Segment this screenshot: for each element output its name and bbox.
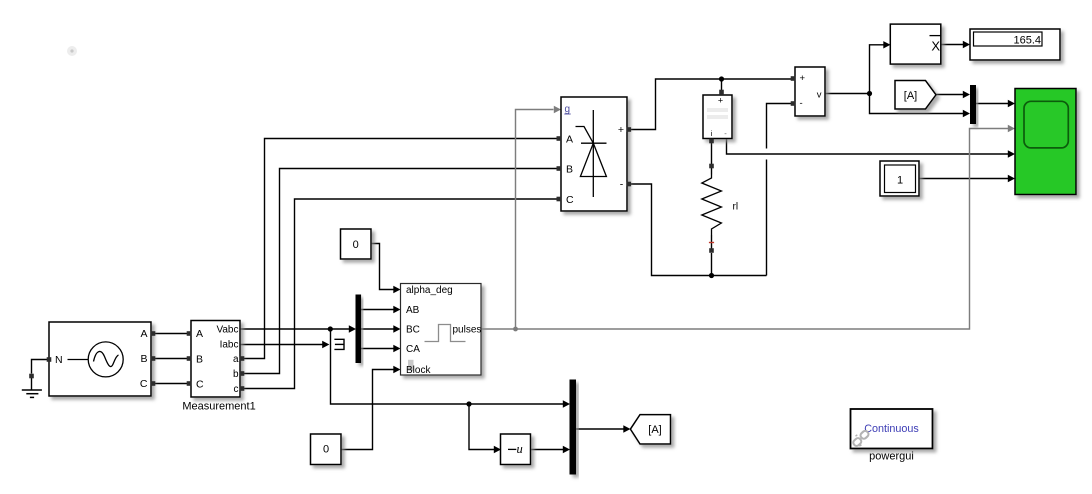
port square bridge plus: [627, 127, 632, 132]
series RLC branch rl: [702, 175, 738, 243]
svg-text:g: g: [565, 104, 571, 115]
port square meas B: [187, 356, 192, 361]
svg-text:powergui: powergui: [869, 451, 914, 463]
svg-text:b: b: [233, 369, 239, 380]
pulse generator block: [401, 284, 482, 377]
port square rl top: [709, 164, 714, 169]
arrow into scope mux in2: [963, 110, 970, 117]
junction vmeas out: [867, 91, 872, 96]
port square vmeas plus: [791, 76, 796, 81]
svg-text:+: +: [800, 73, 806, 84]
svg-text:a: a: [233, 354, 239, 365]
port square source C: [151, 381, 156, 386]
wire branch down to negate: [469, 404, 494, 450]
thyristor bridge block: [561, 97, 627, 211]
svg-text:A: A: [566, 134, 573, 146]
svg-text:B: B: [196, 353, 203, 365]
svg-text:N: N: [55, 354, 63, 366]
arrow into demux: [349, 325, 356, 332]
svg-text:AB: AB: [406, 305, 420, 316]
arrow into mux1 in1: [563, 400, 570, 407]
svg-text:0: 0: [323, 444, 329, 456]
arrow into scope mux in1: [963, 91, 970, 98]
wire constant0 top to alpha_deg: [371, 244, 394, 290]
wire mean to display: [941, 44, 964, 46]
svg-text:-: -: [620, 178, 624, 190]
negate unary minus block: [501, 434, 531, 465]
wire Iabc to terminator: [240, 344, 323, 346]
wire from tag A to scope mux in1: [936, 94, 964, 96]
svg-text:alpha_deg: alpha_deg: [406, 285, 453, 296]
port square rl bottom: [709, 248, 714, 253]
arrow into mux1 in2: [563, 446, 570, 453]
port square bridge B: [557, 166, 562, 171]
arrow into negate: [494, 446, 501, 453]
voltage measurement block: [795, 67, 825, 116]
port square source N: [47, 357, 52, 362]
goto tag A: [630, 415, 670, 444]
port square meas b: [240, 371, 245, 376]
arrow into BC: [393, 325, 400, 332]
svg-text:C: C: [566, 194, 574, 206]
port square source A: [151, 331, 156, 336]
svg-text:1: 1: [897, 174, 903, 186]
mux1 bottom: [570, 380, 577, 475]
port square vmeas minus: [791, 101, 796, 106]
wire bridge minus down to bottom bus: [627, 184, 767, 276]
svg-text:u: u: [517, 442, 523, 456]
arrow into AB: [393, 306, 400, 313]
wire N to ground: [32, 360, 49, 374]
svg-text:[A]: [A]: [904, 90, 917, 102]
arrow into CA: [393, 345, 400, 352]
arrow into terminator: [322, 341, 329, 348]
arrow into alpha_deg: [393, 286, 400, 293]
svg-text:+: +: [718, 96, 723, 106]
wire rl to bottom bus: [711, 253, 713, 276]
wire current meas to rl branch: [711, 143, 713, 165]
junction load bottom: [709, 273, 714, 278]
svg-text:-: -: [800, 98, 803, 109]
wire demux out3 to CA: [361, 348, 395, 350]
arrow into scope in3: [1008, 150, 1015, 157]
three-phase source block: [49, 322, 151, 396]
arrow into scope in4: [1008, 175, 1015, 182]
svg-text:Continuous: Continuous: [864, 423, 919, 435]
constant 0 bottom: [311, 434, 342, 465]
wire negate to mux1 in2: [531, 449, 564, 451]
wire junction down to current measurement: [721, 79, 723, 90]
from tag A: [895, 81, 936, 110]
ground symbol: [22, 390, 42, 397]
wire current i out to scope in3: [727, 139, 1010, 154]
port square imeas top: [719, 90, 724, 95]
svg-text:C: C: [140, 378, 148, 390]
pulse wave icon: [425, 325, 466, 342]
mean block: [890, 24, 941, 64]
current measurement block: [703, 95, 732, 139]
junction Vabc: [328, 326, 333, 331]
wire pulses branch up to bridge g (gray): [516, 110, 554, 330]
wire vmeas v out to junction: [825, 93, 870, 95]
arrow into scope in1: [1008, 100, 1015, 107]
faint smudge dot top-left: [67, 46, 77, 56]
wire measurement a to bridge A: [240, 139, 559, 359]
port square bridge C: [557, 197, 562, 202]
svg-text:pulses: pulses: [453, 324, 482, 335]
measurement1 block: [182, 321, 255, 413]
junction bridge plus bus: [719, 76, 724, 81]
wire source B to measurement B: [151, 358, 191, 360]
port square meas a: [240, 356, 245, 361]
svg-text:B: B: [566, 163, 573, 175]
svg-text:A: A: [196, 328, 203, 340]
svg-text:165.4: 165.4: [1013, 35, 1041, 47]
constant 1 block: [880, 161, 919, 196]
arrow into display: [963, 41, 970, 48]
arrow into bridge g (gray): [554, 106, 561, 113]
svg-text:rl: rl: [733, 202, 739, 213]
wire ground stem: [31, 378, 33, 390]
wire demux out2 to BC: [361, 328, 395, 330]
scope block: [1015, 89, 1076, 195]
wire measurement b to bridge B: [240, 169, 559, 374]
arrow into mean: [883, 41, 890, 48]
wire source A to measurement A: [151, 333, 191, 335]
svg-text:B: B: [140, 353, 147, 365]
port square source B: [151, 356, 156, 361]
scope mux: [970, 85, 976, 124]
junction bottom bus: [466, 401, 471, 406]
svg-text:c: c: [234, 384, 239, 395]
svg-text:0: 0: [353, 239, 359, 251]
port square imeas bottom: [709, 139, 714, 144]
svg-text:CA: CA: [406, 344, 420, 355]
source sine circle icon: [88, 342, 123, 377]
resistor zigzag: [702, 175, 722, 236]
powergui block: [851, 409, 933, 463]
wire constant0 bottom to Block: [342, 370, 395, 450]
wire bridge plus to vmeas plus: [627, 79, 792, 130]
arrow into Block: [393, 366, 400, 373]
svg-text:[A]: [A]: [648, 424, 661, 436]
source N stub line: [68, 359, 89, 361]
svg-text:Measurement1: Measurement1: [182, 401, 255, 413]
wire mux1 to goto A: [576, 428, 624, 430]
svg-text:Iabc: Iabc: [220, 340, 239, 351]
port square meas A: [187, 331, 192, 336]
svg-text:BC: BC: [406, 325, 420, 336]
svg-text:C: C: [196, 378, 204, 390]
wire source C to measurement C: [151, 383, 191, 385]
wire rl bottom stem: [711, 235, 713, 249]
junction pulses gray: [513, 327, 518, 332]
gray tick behind Block label: [408, 360, 414, 371]
wire bottom bus up to vmeas minus (with crossing gap): [767, 104, 793, 276]
broken link icon: [852, 430, 870, 447]
wire Vabc branch down to mux1 in1: [331, 329, 564, 404]
wire scope mux to scope in1: [976, 103, 1009, 105]
svg-text:A: A: [140, 328, 147, 340]
terminator block: [334, 339, 344, 349]
wire junction up to mean: [870, 45, 885, 94]
demux: [356, 295, 362, 364]
wire constant1 to scope in4: [919, 178, 1009, 180]
wire demux out1 to AB: [361, 309, 395, 311]
svg-text:Block: Block: [406, 365, 431, 376]
wire junction down to scope mux in2: [870, 94, 965, 114]
display block: [970, 29, 1060, 60]
wire Vabc to demux: [240, 328, 349, 330]
port square meas C: [187, 381, 192, 386]
port square bridge A: [557, 136, 562, 141]
port square bridge minus: [627, 182, 632, 187]
arrow into scope in2 (gray): [1008, 125, 1015, 132]
port square meas c: [240, 386, 245, 391]
svg-text:Vabc: Vabc: [216, 324, 238, 335]
svg-text:v: v: [817, 90, 822, 101]
arrow into goto A: [623, 425, 630, 432]
port square ground: [29, 374, 34, 379]
constant 0 top: [341, 229, 372, 259]
wire rl top stem: [711, 168, 713, 175]
svg-text:X: X: [931, 39, 940, 54]
wire pulses to corner and scope in2 (gray): [481, 129, 1009, 330]
red polarity mark: [709, 242, 714, 244]
svg-text:+: +: [618, 124, 624, 136]
wire measurement c to bridge C: [240, 199, 559, 389]
thyristor icon: [576, 110, 607, 197]
faint watermark lines: [707, 108, 728, 112]
